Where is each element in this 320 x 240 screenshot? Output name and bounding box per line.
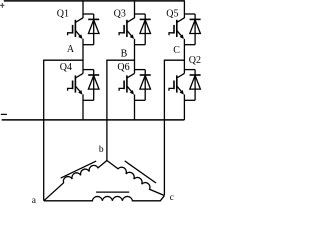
- diode D1 anode-cathode lead: [93, 14, 95, 45]
- transistor Q4 gate bar: [72, 81, 74, 90]
- wire: + branch to diode of Q3: [135, 13, 146, 15]
- wire: emitter of Q1 down to node A and collector of Q4: [82, 39, 84, 74]
- diode D2 anode-cathode lead: [194, 70, 196, 101]
- transistor Q6 emitter lead with arrow: [127, 86, 133, 93]
- transistor Q3 main bar: [126, 20, 128, 37]
- wire: diode Q3 bottom to emitter: [135, 44, 146, 46]
- diode D3 triangle: [140, 20, 151, 34]
- svg-text:B: B: [121, 49, 128, 60]
- wire: diode Q6 bottom to emitter: [135, 99, 146, 101]
- diode D3 anode-cathode lead: [144, 14, 146, 45]
- transistor Q5 gate lead: [169, 33, 174, 35]
- transistor Q2 collector lead: [177, 73, 185, 78]
- transistor Q3 gate bar: [123, 25, 125, 34]
- svg-text:Q2: Q2: [189, 55, 201, 66]
- wire: + branch to diode of Q1: [83, 13, 94, 15]
- wire: collector of Q3 from + bus: [134, 0, 136, 18]
- label +: [0, 3, 4, 8]
- wire: branch to diode of Q2: [184, 69, 195, 71]
- transistor Q4 gate lead: [68, 88, 73, 90]
- wire: phase C from node C left and down to winding terminal c: [164, 60, 184, 195]
- svg-text:Q3: Q3: [114, 9, 126, 20]
- diode D2 cathode bar: [190, 74, 201, 76]
- diode D5 cathode bar: [190, 18, 201, 20]
- transistor Q1 gate lead: [68, 33, 73, 35]
- wire: + branch to diode of Q5: [184, 13, 195, 15]
- winding b-c core bar: [125, 161, 156, 183]
- diode D1 triangle: [88, 20, 99, 34]
- transistor Q1 gate bar: [72, 25, 74, 34]
- svg-text:Q5: Q5: [166, 9, 178, 20]
- transistor Q3 collector lead: [127, 18, 135, 23]
- label -: [1, 113, 7, 115]
- svg-text:c: c: [170, 193, 174, 203]
- transistor Q5 main bar: [176, 20, 178, 37]
- transistor Q1 main bar: [74, 20, 76, 37]
- wire: emitter of Q5 down to node C and collector of Q2: [183, 39, 185, 74]
- diode D4 anode-cathode lead: [93, 70, 95, 101]
- diode D3 cathode bar: [140, 18, 151, 20]
- transistor Q6 collector lead: [127, 73, 135, 78]
- transistor Q6 main bar: [126, 75, 128, 92]
- transistor Q4 collector lead: [75, 73, 83, 78]
- wire: collector of Q1 from + bus: [82, 0, 84, 18]
- diode D4 triangle: [88, 76, 99, 90]
- transistor Q6 gate lead: [119, 88, 124, 90]
- diode D6 triangle: [140, 76, 151, 90]
- transistor Q4 main bar: [74, 75, 76, 92]
- transistor Q2 gate lead: [169, 88, 174, 90]
- winding a-b (stator phase coil): [44, 161, 107, 201]
- wire: branch to diode of Q4: [83, 69, 94, 71]
- diode D5 anode-cathode lead: [194, 14, 196, 45]
- wire: branch to diode of Q6: [135, 69, 146, 71]
- winding a-c core bar: [96, 191, 129, 193]
- wire: phase B from node B left and down to winding terminal b: [107, 60, 135, 160]
- transistor Q2 emitter lead with arrow: [177, 86, 183, 93]
- wire: diode Q5 bottom to emitter: [184, 44, 195, 46]
- wire: emitter of Q2 down to - bus: [183, 94, 185, 120]
- svg-text:Q4: Q4: [60, 62, 72, 73]
- svg-text:C: C: [173, 45, 180, 56]
- wire: phase A from node A left and down to winding terminal a: [44, 60, 83, 201]
- winding a-c (stator phase coil): [44, 196, 164, 201]
- svg-text:Q1: Q1: [57, 9, 69, 20]
- svg-text:b: b: [99, 145, 104, 155]
- wire: emitter of Q6 down to - bus: [134, 94, 136, 120]
- transistor Q5 emitter lead with arrow: [177, 30, 183, 37]
- diode D2 triangle: [190, 76, 201, 90]
- transistor Q2 gate bar: [173, 81, 175, 90]
- wire: emitter of Q3 down to node B and collector of Q6: [134, 39, 136, 74]
- transistor Q3 emitter lead with arrow: [127, 30, 133, 37]
- diode D5 triangle: [190, 20, 201, 34]
- winding b-c (stator phase coil): [107, 161, 164, 196]
- wire: diode Q1 bottom to emitter: [83, 44, 94, 46]
- transistor Q5 collector lead: [177, 18, 185, 23]
- wire: diode Q4 bottom to emitter: [83, 99, 94, 101]
- svg-text:a: a: [32, 196, 37, 205]
- diode D1 cathode bar: [88, 18, 99, 20]
- winding a-b core bar: [61, 161, 96, 178]
- transistor Q2 main bar: [176, 75, 178, 92]
- diode D4 cathode bar: [88, 74, 99, 76]
- svg-text:Q6: Q6: [117, 62, 129, 73]
- transistor Q1 emitter lead with arrow: [75, 30, 81, 37]
- diode D6 cathode bar: [140, 74, 151, 76]
- wire: collector of Q5 from + bus: [183, 0, 185, 18]
- transistor Q5 gate bar: [173, 25, 175, 34]
- transistor Q4 emitter lead with arrow: [75, 86, 81, 93]
- diode D6 anode-cathode lead: [144, 70, 146, 101]
- transistor Q6 gate bar: [123, 81, 125, 90]
- transistor Q3 gate lead: [119, 33, 124, 35]
- svg-text:A: A: [67, 44, 75, 55]
- wire: diode Q2 bottom to emitter: [184, 99, 195, 101]
- negative bus (- rail): [2, 119, 185, 121]
- wire: emitter of Q4 down to - bus: [82, 94, 84, 120]
- top bus (+ rail): [4, 0, 185, 2]
- transistor Q1 collector lead: [75, 18, 83, 23]
